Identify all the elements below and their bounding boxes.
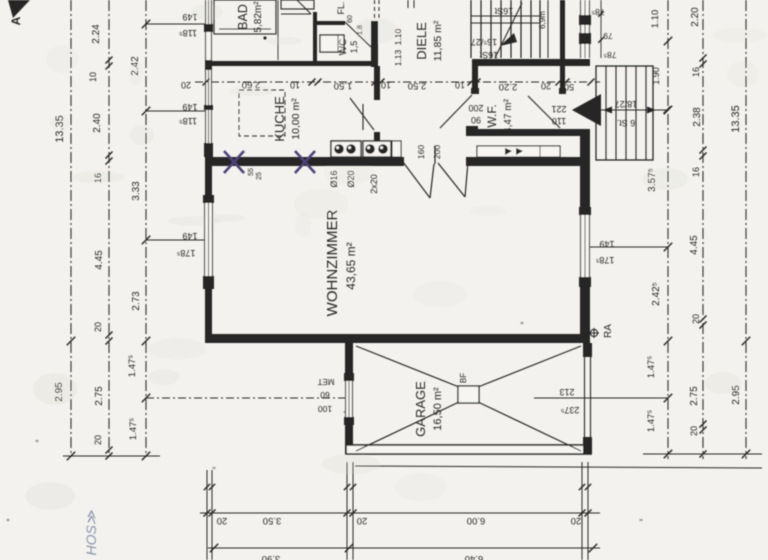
svg-text:16⁵/27: 16⁵/27 <box>471 37 497 47</box>
svg-text:BF: BF <box>459 373 468 383</box>
svg-text:149: 149 <box>182 102 197 112</box>
svg-text:WC: WC <box>338 39 349 56</box>
svg-text:20: 20 <box>93 322 103 332</box>
svg-text:10: 10 <box>381 80 391 90</box>
svg-text:13.35: 13.35 <box>730 105 742 133</box>
svg-text:A: A <box>9 16 23 25</box>
svg-text:2.20: 2.20 <box>499 81 518 92</box>
svg-text:149: 149 <box>599 239 614 249</box>
svg-text:1.47⁵: 1.47⁵ <box>646 356 657 378</box>
svg-text:118⁵: 118⁵ <box>179 116 197 126</box>
svg-text:1.50: 1.50 <box>334 80 353 91</box>
svg-text:FL.: FL. <box>336 1 346 14</box>
svg-text:1.47⁵: 1.47⁵ <box>127 355 138 377</box>
svg-text:20: 20 <box>691 314 701 324</box>
svg-text:100: 100 <box>318 404 332 414</box>
svg-text:2.40: 2.40 <box>92 113 103 133</box>
svg-text:11,85 m²: 11,85 m² <box>432 20 444 61</box>
svg-text:2.73: 2.73 <box>131 291 142 311</box>
svg-text:2.42: 2.42 <box>130 56 141 76</box>
svg-text:10: 10 <box>88 72 98 82</box>
svg-text:2.60: 2.60 <box>242 79 261 90</box>
svg-text:16: 16 <box>93 173 103 183</box>
svg-text:1.8: 1.8 <box>357 25 364 35</box>
svg-text:1.10: 1.10 <box>650 10 661 29</box>
svg-text:118⁵: 118⁵ <box>179 28 197 38</box>
svg-text:16: 16 <box>691 67 701 77</box>
svg-text:6,9m: 6,9m <box>538 11 547 29</box>
svg-text:20: 20 <box>689 426 699 436</box>
svg-text:Ø16: Ø16 <box>329 170 339 187</box>
svg-text:WOHNZIMMER: WOHNZIMMER <box>324 210 341 317</box>
svg-text:Ø20: Ø20 <box>346 170 356 187</box>
svg-text:43,65 m²: 43,65 m² <box>344 242 358 289</box>
svg-text:2.42⁵: 2.42⁵ <box>651 282 662 306</box>
svg-text:149: 149 <box>182 12 197 22</box>
svg-text:60: 60 <box>320 390 330 400</box>
svg-text:GARAGE: GARAGE <box>413 381 428 437</box>
svg-text:RA: RA <box>603 324 614 338</box>
svg-text:4.45: 4.45 <box>689 235 700 255</box>
svg-text:237⁵: 237⁵ <box>560 405 579 415</box>
svg-text:60: 60 <box>347 15 354 23</box>
svg-text:6.40: 6.40 <box>465 553 484 560</box>
svg-text:10: 10 <box>455 80 465 90</box>
svg-text:13.35: 13.35 <box>54 115 66 143</box>
svg-text:160: 160 <box>416 145 426 159</box>
svg-text:1.90: 1.90 <box>651 67 661 85</box>
svg-text:149: 149 <box>182 231 197 241</box>
svg-text:2.38: 2.38 <box>692 107 703 127</box>
svg-text:20: 20 <box>541 81 551 91</box>
svg-text:20: 20 <box>217 515 228 526</box>
svg-text:KUCHE: KUCHE <box>272 96 287 142</box>
svg-text:2.50: 2.50 <box>408 80 427 91</box>
svg-text:2.75: 2.75 <box>689 386 700 406</box>
svg-text:110: 110 <box>552 116 566 126</box>
svg-text:6.00: 6.00 <box>467 515 486 526</box>
svg-text:3.50: 3.50 <box>263 515 282 526</box>
svg-text:1.10: 1.10 <box>393 28 403 45</box>
svg-text:W.F.: W.F. <box>485 104 499 127</box>
svg-text:178⁵: 178⁵ <box>595 255 614 265</box>
svg-text:16,50 m²: 16,50 m² <box>432 387 444 431</box>
svg-text:16St: 16St <box>494 6 513 16</box>
svg-text:2x20: 2x20 <box>369 174 379 194</box>
svg-text:18/27: 18/27 <box>615 99 638 109</box>
svg-text:1.47⁵: 1.47⁵ <box>128 418 139 440</box>
svg-text:20: 20 <box>571 515 582 526</box>
svg-text:5,82m²: 5,82m² <box>253 1 264 33</box>
svg-text:3.57⁵: 3.57⁵ <box>647 168 658 192</box>
svg-text:4,47 m²: 4,47 m² <box>503 98 514 133</box>
svg-text:4.45: 4.45 <box>94 250 105 270</box>
svg-text:6 St.: 6 St. <box>617 118 636 128</box>
svg-text:1.13: 1.13 <box>393 49 403 66</box>
svg-text:10: 10 <box>290 80 300 90</box>
svg-text:20: 20 <box>93 435 103 445</box>
svg-text:16: 16 <box>691 167 701 177</box>
svg-text:178⁵: 178⁵ <box>176 248 195 258</box>
svg-text:213: 213 <box>559 387 574 397</box>
svg-text:200: 200 <box>432 145 442 159</box>
svg-text:16St: 16St <box>479 50 498 60</box>
svg-text:25: 25 <box>256 172 263 180</box>
svg-text:78⁵: 78⁵ <box>592 7 605 17</box>
svg-text:1.47⁵: 1.47⁵ <box>646 410 657 432</box>
svg-text:78⁵: 78⁵ <box>604 50 617 60</box>
svg-text:200: 200 <box>468 103 483 113</box>
svg-text:50: 50 <box>564 82 574 92</box>
svg-text:10,00 m²: 10,00 m² <box>290 98 302 140</box>
svg-text:BAD: BAD <box>236 4 250 30</box>
svg-text:20: 20 <box>357 515 368 526</box>
svg-text:90: 90 <box>471 115 481 125</box>
svg-text:3.90: 3.90 <box>262 553 281 560</box>
svg-text:2.24: 2.24 <box>91 24 102 44</box>
svg-text:55: 55 <box>248 168 255 176</box>
svg-text:1,5: 1,5 <box>349 41 359 54</box>
svg-text:2.95: 2.95 <box>54 382 65 402</box>
svg-text:79: 79 <box>603 31 613 41</box>
svg-text:DIELE: DIELE <box>414 22 429 60</box>
svg-text:2.75: 2.75 <box>94 386 105 406</box>
svg-text:221: 221 <box>551 104 566 114</box>
svg-text:2.95: 2.95 <box>731 385 742 405</box>
svg-text:2.20: 2.20 <box>690 7 701 27</box>
svg-text:MET: MET <box>317 377 334 386</box>
svg-text:HOS≫: HOS≫ <box>83 510 99 555</box>
svg-text:3.33: 3.33 <box>131 181 142 201</box>
svg-text:20: 20 <box>181 80 191 90</box>
